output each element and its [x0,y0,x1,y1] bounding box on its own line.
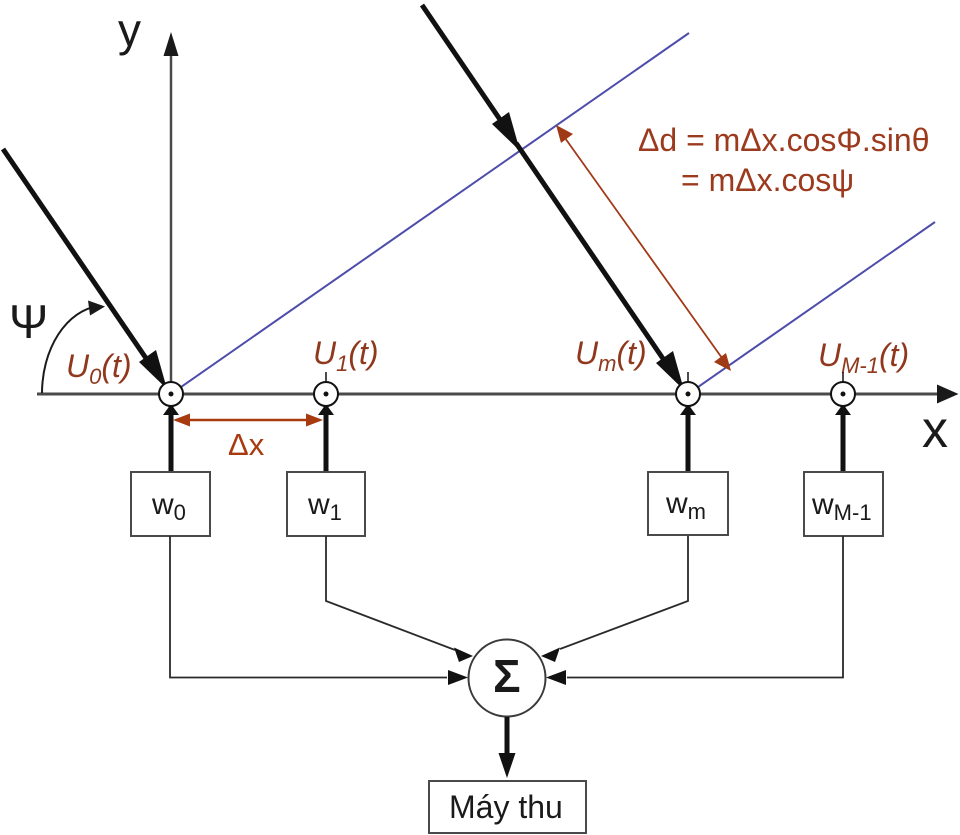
antenna element m [676,372,700,472]
svg-text:y: y [118,4,141,56]
wire w0 to summer [170,536,468,685]
receiver box May thu [429,781,586,833]
incident ray arrow 1 [3,149,167,389]
wire w1 to summer [326,536,473,662]
svg-text:x: x [922,401,948,459]
delta-x label [228,427,265,462]
label U1(t) [313,335,379,376]
svg-text:Δd = mΔx.cosΦ.sinθ: Δd = mΔx.cosΦ.sinθ [638,122,929,158]
formula line 2 [681,162,854,198]
svg-text:Σ: Σ [493,650,521,702]
svg-text:= mΔx.cosψ: = mΔx.cosψ [681,162,854,198]
wavefront 1 (blue) [171,33,689,394]
psi angle arc [42,301,105,394]
weight box w1 [287,472,365,536]
label U0(t) [66,348,132,389]
delta-d double arrow [556,125,731,371]
weight box wm [648,472,728,535]
svg-text:Δx: Δx [228,427,265,462]
output arrow to receiver [499,717,516,778]
svg-text:Ψ: Ψ [9,295,48,348]
weight box wM-1 [804,472,883,536]
y axis label [118,4,141,56]
antenna element 1 [314,372,338,472]
x axis label [922,401,948,459]
incident ray arrow 2 [422,5,684,390]
y axis [164,32,179,394]
label Um(t) [575,335,647,376]
antenna element M-1 [831,372,855,472]
label UM-1(t) [818,337,909,378]
antenna element 0 [159,382,183,472]
wavefront 2 (blue) [688,222,935,394]
wire wM-1 to summer [546,536,843,685]
x axis [37,385,959,404]
weight box w0 [131,472,210,536]
svg-text:Máy thu: Máy thu [449,789,563,825]
psi label [9,295,48,348]
wire wm to summer [541,536,688,662]
summer circle [469,640,546,717]
formula line 1 [638,122,929,158]
delta-x double arrow [173,414,323,427]
